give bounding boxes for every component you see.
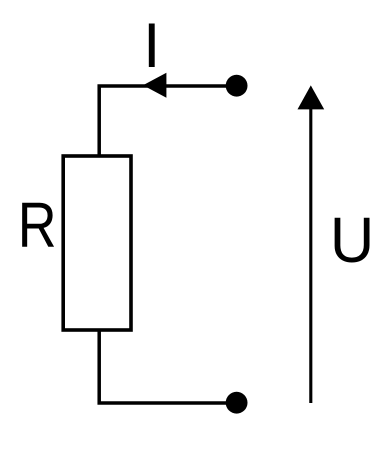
current arrowhead I: [143, 73, 166, 98]
svg-text:I: I: [143, 11, 161, 81]
wire bottom rail: [99, 330, 236, 403]
wire top rail: [99, 86, 236, 156]
node terminal bottom: [226, 392, 248, 414]
voltage arrowhead U: [298, 85, 325, 109]
svg-text:R: R: [18, 189, 57, 262]
voltage arrow U shaft: [309, 107, 312, 403]
node terminal top: [226, 75, 248, 97]
svg-text:U: U: [330, 205, 374, 276]
resistor R1: [63, 156, 131, 330]
